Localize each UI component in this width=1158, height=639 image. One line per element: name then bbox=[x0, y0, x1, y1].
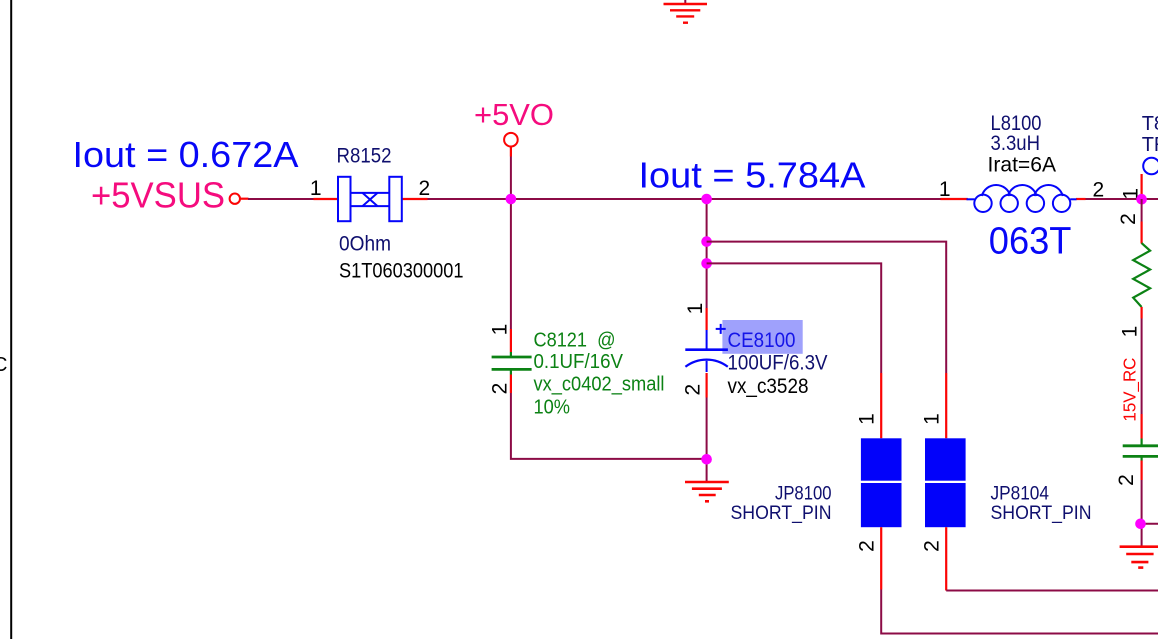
capacitor C8121 bottom plate stub bbox=[510, 370, 512, 375]
capacitor (right) bottom plate stub bbox=[1140, 457, 1142, 460]
capacitor CE8100 symbol bbox=[685, 330, 728, 372]
junction node at T8100 bbox=[1136, 194, 1147, 205]
JP8104 pin 2 (red) bbox=[945, 527, 947, 590]
wire: right of junction to edge bbox=[1141, 198, 1158, 200]
svg-text:1: 1 bbox=[489, 324, 512, 336]
wire: main horizontal net at y=199 bbox=[248, 198, 314, 200]
svg-text:2: 2 bbox=[419, 177, 431, 200]
wire: C8121 down and right to ground junction bbox=[511, 393, 707, 459]
wire: +5VO vertical down to main net bbox=[510, 157, 512, 200]
svg-text:2: 2 bbox=[682, 384, 705, 396]
wire: JP8104 pin2 right bbox=[946, 590, 1158, 592]
junction node branch 1 bbox=[701, 236, 712, 247]
capacitor C8121 top plate stub bbox=[510, 352, 512, 357]
sheet border line bbox=[10, 0, 12, 639]
svg-text:2: 2 bbox=[921, 540, 944, 552]
resistor zigzag (green) bbox=[1133, 243, 1150, 307]
svg-text:+5VO: +5VO bbox=[474, 97, 554, 132]
junction node at +5VO tap bbox=[506, 194, 517, 205]
capacitor CE8100 pin 2 (red) bbox=[705, 373, 707, 398]
wire: main net from R8152 pin2 to L8100 pin1 bbox=[427, 198, 941, 200]
JP8100 pin 2 (red) bbox=[880, 527, 882, 589]
resistor pin 1 bottom (red) bbox=[1140, 307, 1142, 319]
ground (top, net GND) bbox=[664, 0, 708, 23]
wire: between inductor and right junction bbox=[1086, 198, 1138, 200]
resistor R8152 pin 2 (red) bbox=[403, 198, 428, 200]
capacitor C8121 pin 1 (red) bbox=[510, 329, 512, 352]
wire: junction stub right bbox=[1142, 523, 1158, 525]
svg-text:TRANS: TRANS bbox=[1142, 134, 1158, 156]
svg-text:1: 1 bbox=[684, 303, 707, 315]
junction node right bottom bbox=[1135, 519, 1146, 530]
ground (bottom right) bbox=[1120, 547, 1158, 568]
wire: resistor to capacitor bbox=[1141, 319, 1143, 415]
svg-text:JP8104: JP8104 bbox=[991, 484, 1050, 505]
svg-text:2: 2 bbox=[856, 540, 879, 552]
svg-text:0.1UF/16V: 0.1UF/16V bbox=[534, 351, 624, 373]
capacitor C8121 plates bbox=[492, 357, 532, 369]
svg-text:CE8100: CE8100 bbox=[728, 329, 796, 352]
svg-text:1: 1 bbox=[856, 413, 879, 425]
inductor L8100 pin 2 (red) bbox=[1076, 198, 1086, 200]
inductor L8100 symbol bbox=[967, 185, 1077, 212]
capacitor C8121 pin 2 (red) bbox=[510, 375, 512, 394]
wire: vertical from main net down to C8121 bbox=[510, 199, 512, 329]
jumper JP8104 body bbox=[925, 438, 966, 527]
svg-text:2: 2 bbox=[1117, 213, 1140, 225]
svg-text:3.3uH: 3.3uH bbox=[991, 132, 1041, 155]
wire: vertical from main net down to CE8100 bbox=[706, 199, 708, 308]
JP8100 pin 1 (red) bbox=[880, 373, 882, 438]
wire: +5VO stub (red) bbox=[510, 147, 512, 157]
svg-text:1: 1 bbox=[1119, 326, 1142, 338]
capacitor pin (red) bottom bbox=[1140, 461, 1142, 481]
svg-text:15V_RC: 15V_RC bbox=[1120, 358, 1141, 422]
capacitor CE8100 polarity plus bbox=[716, 324, 726, 334]
transformer T8100 pin (red) bbox=[1140, 174, 1142, 196]
svg-text:0Ohm: 0Ohm bbox=[339, 233, 391, 256]
svg-text:SHORT_PIN: SHORT_PIN bbox=[731, 503, 832, 524]
wire: junction down to resistor bbox=[1141, 199, 1143, 222]
svg-text:R8152: R8152 bbox=[337, 144, 392, 167]
svg-text:Irat=6A: Irat=6A bbox=[988, 154, 1057, 177]
svg-text:+5VSUS: +5VSUS bbox=[91, 175, 225, 216]
svg-text:1: 1 bbox=[939, 178, 951, 201]
capacitor CE8100 pin 1 (red) bbox=[705, 308, 707, 330]
JP8104 pin 1 (red) bbox=[945, 373, 947, 438]
svg-text:Iout = 5.784A: Iout = 5.784A bbox=[639, 155, 866, 196]
wire: CE8100 down to ground bbox=[706, 398, 708, 482]
svg-text:S1T060300001: S1T060300001 bbox=[339, 259, 464, 282]
svg-text:SHORT_PIN: SHORT_PIN bbox=[991, 503, 1092, 524]
wire: branch 2 to JP8100 bbox=[707, 263, 882, 373]
junction node branch 2 bbox=[701, 258, 712, 269]
transformer T8100 winding circle bbox=[1143, 158, 1158, 175]
svg-text:100UF/6.3V: 100UF/6.3V bbox=[728, 351, 828, 374]
svg-text:vx_c0402_small: vx_c0402_small bbox=[534, 374, 665, 396]
svg-text:2: 2 bbox=[489, 383, 512, 395]
wire: capacitor down to ground junction bbox=[1141, 480, 1143, 546]
svg-text:vx_c3528: vx_c3528 bbox=[728, 375, 809, 398]
highlight box on CE8100 refdes bbox=[722, 320, 802, 354]
svg-text:1: 1 bbox=[310, 177, 322, 200]
junction node at CE8100 tap bbox=[701, 194, 712, 205]
ground (below CE8100) bbox=[685, 482, 729, 501]
svg-text:2: 2 bbox=[1115, 474, 1138, 486]
svg-text:T8100: T8100 bbox=[1142, 113, 1158, 135]
capacitor pin (red) top bbox=[1140, 414, 1142, 439]
junction node at ground bbox=[701, 454, 712, 465]
svg-text:Iout = 0.672A: Iout = 0.672A bbox=[73, 134, 299, 175]
inductor L8100 pin 1 (red) bbox=[941, 198, 968, 200]
svg-text:C: C bbox=[0, 354, 7, 376]
terminal circle +5VSUS bbox=[230, 194, 240, 204]
jumper JP8100 body bbox=[861, 438, 902, 527]
svg-text:JP8100: JP8100 bbox=[775, 484, 832, 505]
svg-text:2: 2 bbox=[1093, 179, 1105, 202]
capacitor (right) top plate stub bbox=[1140, 439, 1142, 445]
svg-text:10%: 10% bbox=[534, 397, 571, 419]
wire: branch 1 to JP8104 bbox=[707, 242, 947, 373]
label C8121 values (green) bbox=[534, 330, 665, 419]
svg-text:C8121 @: C8121 @ bbox=[534, 330, 616, 352]
capacitor plates (right, green) bbox=[1123, 446, 1158, 457]
resistor R8152 symbol (0-ohm jumper) bbox=[338, 177, 402, 221]
wire: JP8100 pin2 down and right bbox=[881, 590, 1158, 634]
svg-text:1: 1 bbox=[921, 413, 944, 425]
resistor pin 2 top (red) bbox=[1140, 222, 1142, 244]
terminal circle +5VO bbox=[504, 133, 518, 147]
resistor R8152 pin 1 (red) bbox=[314, 198, 339, 200]
wire: +5VSUS terminal stub bbox=[240, 198, 248, 200]
svg-text:063T: 063T bbox=[989, 221, 1072, 263]
